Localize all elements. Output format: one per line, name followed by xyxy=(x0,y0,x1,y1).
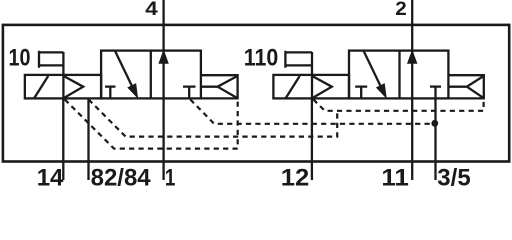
pilot line 12 xyxy=(311,99,313,181)
solenoid S2 connector marker 110 xyxy=(285,51,312,75)
solenoid S1 divider xyxy=(62,75,64,99)
svg-text:10: 10 xyxy=(9,44,31,71)
solenoid S1 pilot triangle xyxy=(63,76,83,98)
solenoid S1 connector marker 10 xyxy=(39,51,63,75)
valve V2 position divider xyxy=(398,51,400,99)
valve V1 blocked port T left square xyxy=(105,87,116,99)
air spring return V1 box xyxy=(201,75,238,98)
air spring return V1 stub xyxy=(201,86,218,88)
port line 4/1 (vertical through valve 1) xyxy=(162,0,164,180)
valve V1 blocked port T right square xyxy=(183,87,196,99)
pilot channel 12 to spring V2 xyxy=(313,100,483,111)
svg-text:2: 2 xyxy=(395,0,407,20)
valve V1 body xyxy=(101,51,201,99)
valve V2 exhaust port T right square xyxy=(430,85,441,87)
svg-text:12: 12 xyxy=(281,164,310,190)
solenoid S1 coil diagonal xyxy=(34,76,48,98)
solenoid S1 coil box xyxy=(25,75,101,99)
air spring return V1 triangle xyxy=(218,76,238,98)
flow arrow V1 actuated (4 to exhaust) xyxy=(115,51,138,98)
exhaust line 3/5 xyxy=(434,87,436,180)
pilot line 14 xyxy=(62,99,64,181)
flow arrow V2 rest position (11 to 2) xyxy=(408,51,417,63)
pilot exhaust line 82/84 xyxy=(87,99,89,181)
solenoid S2 divider xyxy=(311,75,313,99)
svg-text:11: 11 xyxy=(381,164,409,190)
solenoid S2 coil box xyxy=(273,75,349,99)
pilot channel dashed network xyxy=(65,100,484,149)
pilot exhaust 82/84 channel xyxy=(89,100,338,137)
junction dot on 3/5 line xyxy=(431,120,438,127)
flow arrow V2 actuated (2 to exhaust) xyxy=(364,51,387,98)
air spring return V2 box xyxy=(448,75,483,98)
valve V2 blocked port T left square xyxy=(355,87,367,99)
svg-text:4: 4 xyxy=(145,0,158,20)
port line 2/11 (vertical through valve 2) xyxy=(411,0,413,180)
svg-text:14: 14 xyxy=(37,164,64,190)
solenoid S2 pilot triangle xyxy=(312,76,332,98)
svg-text:1: 1 xyxy=(165,164,176,190)
valve V1 position divider xyxy=(150,51,152,99)
valve V2 body xyxy=(349,51,448,99)
air spring return V2 stub xyxy=(448,86,467,88)
exhaust channel V1 to 3/5 xyxy=(190,100,434,124)
svg-text:3/5: 3/5 xyxy=(437,164,470,190)
pilot channel 14 to spring V1 xyxy=(65,100,238,149)
manifold frame xyxy=(3,25,509,162)
air spring return V2 triangle xyxy=(467,76,484,98)
svg-text:82/84: 82/84 xyxy=(91,164,152,190)
flow arrow V1 rest position (1 to 4) xyxy=(159,51,168,63)
svg-text:110: 110 xyxy=(244,44,278,71)
solenoid S2 coil diagonal xyxy=(286,76,300,98)
